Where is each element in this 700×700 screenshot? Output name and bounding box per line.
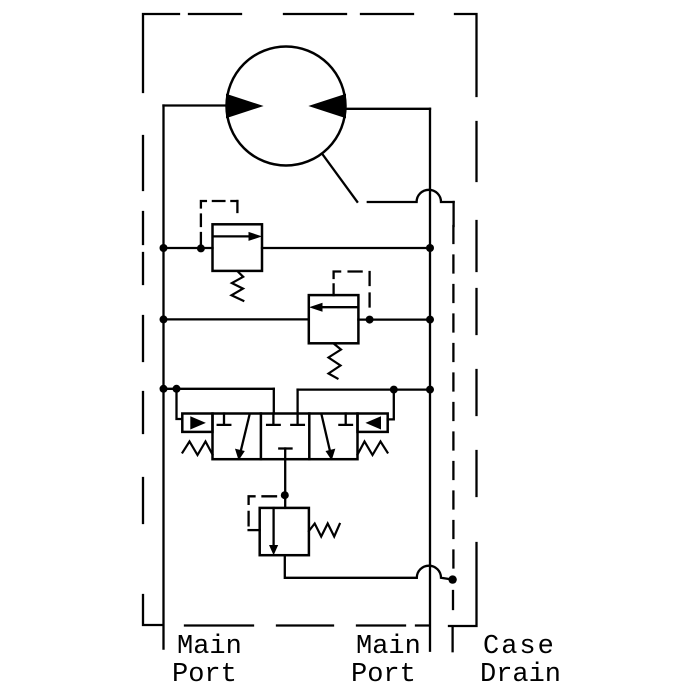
junction dot right pilot feed <box>390 386 398 394</box>
wire motor case drain diagonal <box>323 154 358 201</box>
enclosure dashed border bottom-left corner <box>143 595 162 625</box>
wire case drain below junction dashed <box>452 591 454 609</box>
valve V1 left box flow arrow <box>241 414 250 452</box>
svg-text:Main: Main <box>177 632 242 662</box>
wire motor right port to right main line <box>344 108 430 110</box>
enclosure dashed border bottom side <box>185 624 428 626</box>
enclosure dashed border left side <box>142 136 144 523</box>
wire left main line vertical <box>162 106 164 649</box>
relief valve RV2 spring <box>329 344 342 379</box>
relief valve RV3 pilot solid stub <box>249 529 260 531</box>
wire left pilot feed elbow <box>177 389 183 419</box>
wire valve pilot supply left <box>164 388 274 390</box>
valve V1 right box blocked port T <box>339 414 352 425</box>
junction dot left line upper crossover <box>160 244 168 252</box>
relief valve RV1 flow arrow <box>214 235 250 237</box>
shuttle valve V1 left pilot arrowhead <box>191 417 205 429</box>
shuttle valve V1 right pilot arrowhead <box>367 417 381 429</box>
relief valve RV2 top stub <box>332 284 334 295</box>
svg-text:Port: Port <box>172 660 237 690</box>
wire drop to valve center left port <box>273 389 275 414</box>
junction dot case drain junction <box>448 575 456 583</box>
shuttle valve V1 right spring <box>358 442 388 456</box>
wire RV3 outlet with crossover hump to case drain <box>285 555 453 579</box>
relief valve RV2 body <box>309 295 359 343</box>
relief valve RV3 pilot dashed line <box>249 496 276 530</box>
shuttle valve V1 left spring <box>183 442 213 456</box>
wire case drain horizontal with crossover hump <box>368 190 454 202</box>
relief valve RV3 spring <box>309 524 340 537</box>
enclosure dashed border bottom-right corner <box>449 543 477 626</box>
junction dot left pilot feed <box>173 385 181 393</box>
relief valve RV3 body <box>260 508 309 555</box>
wire valve pilot supply right <box>298 388 430 390</box>
enclosure dashed border top-right corner <box>455 14 477 96</box>
valve V1 center box blocked bottom port T <box>279 447 291 449</box>
wire valve bottom port to relief RV3 <box>284 449 286 508</box>
enclosure dashed border top side <box>189 13 413 15</box>
shuttle valve V1 left pilot box <box>182 414 212 432</box>
junction dot right line lower crossover <box>426 316 434 324</box>
junction dot RV1 pilot tap <box>197 244 205 252</box>
relief valve RV3 flow arrow <box>272 508 274 546</box>
relief valve RV1 body <box>213 224 263 271</box>
valve V1 center box blocked port T left <box>267 414 280 425</box>
enclosure dashed border right side <box>475 122 477 496</box>
enclosure dashed border top-left corner <box>143 14 179 92</box>
wire drop to valve center right port <box>296 390 298 414</box>
svg-text:Port: Port <box>351 660 416 690</box>
shuttle valve V1 right pilot box <box>358 414 388 432</box>
junction dot RV2 pilot tap <box>366 316 374 324</box>
wire upper crossover line (left relief) <box>164 247 431 249</box>
hydraulic motor M1 circle <box>227 47 346 166</box>
relief valve RV1 pilot dashed line <box>201 201 238 245</box>
wire motor left port to left main line <box>164 104 229 106</box>
relief valve RV1 pilot end stub <box>236 201 238 212</box>
junction dot left line lower crossover <box>160 315 168 323</box>
motor M1 right arrowhead <box>310 95 346 118</box>
junction dot right line upper crossover <box>426 244 434 252</box>
relief valve RV2 flow arrow <box>321 306 357 308</box>
relief valve RV2 pilot dashed line <box>334 272 370 316</box>
junction dot RV3 pilot tap <box>281 491 289 499</box>
svg-text:Main: Main <box>356 632 421 662</box>
junction dot right line valve supply <box>426 386 434 394</box>
wire case drain vertical dashed <box>452 226 454 575</box>
svg-text:Case: Case <box>483 632 556 662</box>
shuttle valve V1 body three boxes <box>213 414 358 460</box>
valve V1 center box blocked port T right <box>291 414 304 425</box>
svg-text:Drain: Drain <box>480 660 561 690</box>
junction dot left line valve supply <box>160 385 168 393</box>
wire right pilot feed elbow <box>388 390 394 420</box>
motor M1 left arrowhead <box>227 95 263 118</box>
valve V1 left box blocked port T <box>218 414 231 425</box>
wire lower crossover line (right relief) <box>164 318 431 321</box>
relief valve RV1 spring <box>232 272 244 301</box>
wire right main line vertical <box>429 109 431 651</box>
valve V1 right box flow arrow <box>322 415 331 453</box>
wire case drain exit stub to Case Drain port <box>451 627 453 651</box>
wire case drain vertical solid upper <box>452 202 454 226</box>
